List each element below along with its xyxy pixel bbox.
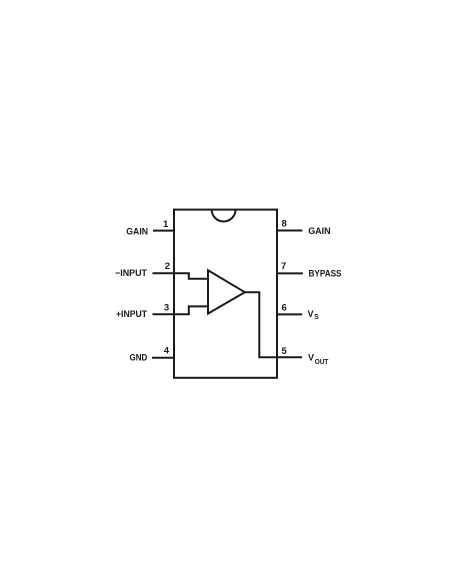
svg-text:V: V [308, 309, 314, 319]
pin number 1 [163, 219, 169, 230]
svg-text:5: 5 [282, 346, 288, 357]
svg-text:1: 1 [163, 219, 169, 230]
svg-text:S: S [314, 314, 319, 321]
svg-text:8: 8 [282, 219, 287, 230]
pin number 5 [282, 346, 288, 357]
label VOUT (pin 5) [308, 352, 329, 366]
IC U1 DIP-8 package body [174, 210, 277, 378]
pin number 8 [282, 219, 287, 230]
pin 7 wire [277, 272, 303, 274]
svg-text:3: 3 [164, 303, 169, 314]
pin 6 wire [277, 313, 302, 315]
svg-text:2: 2 [165, 261, 170, 272]
label GAIN (pin 8) [308, 226, 330, 236]
pin 2 wire [153, 272, 190, 274]
pin number 2 [165, 261, 170, 272]
wire: op-amp output to pin 5 [245, 292, 302, 357]
label BYPASS (pin 7) [309, 268, 342, 278]
label GND (pin 4) [130, 353, 148, 363]
svg-text:BYPASS: BYPASS [309, 268, 342, 278]
label -INPUT (pin 2) [115, 268, 147, 278]
pin number 3 [164, 303, 169, 314]
svg-text:7: 7 [281, 261, 286, 272]
pin number 4 [164, 346, 170, 357]
wire: op-amp inverting input step from pin 2 [189, 273, 208, 279]
wire: op-amp non-inverting input step from pin 3 [189, 306, 208, 314]
pin number 7 [281, 261, 286, 272]
svg-text:−INPUT: −INPUT [115, 268, 147, 278]
svg-text:GND: GND [130, 353, 148, 363]
svg-text:OUT: OUT [315, 359, 329, 366]
svg-text:V: V [308, 352, 314, 362]
pin 4 wire [152, 357, 174, 359]
svg-text:4: 4 [164, 346, 170, 357]
pin 8 wire [277, 230, 302, 232]
op-amp U1A triangle [208, 270, 245, 313]
pin 1 wire [153, 230, 174, 232]
svg-text:6: 6 [282, 303, 287, 314]
svg-text:GAIN: GAIN [126, 226, 148, 236]
label VS (pin 6) [308, 309, 320, 321]
pin-1 index notch [212, 210, 236, 222]
pin number 6 [282, 303, 287, 314]
label +INPUT (pin 3) [116, 309, 147, 319]
pin 3 wire [153, 313, 190, 315]
svg-text:+INPUT: +INPUT [116, 309, 147, 319]
label GAIN (pin 1) [126, 226, 148, 236]
svg-text:GAIN: GAIN [308, 226, 330, 236]
